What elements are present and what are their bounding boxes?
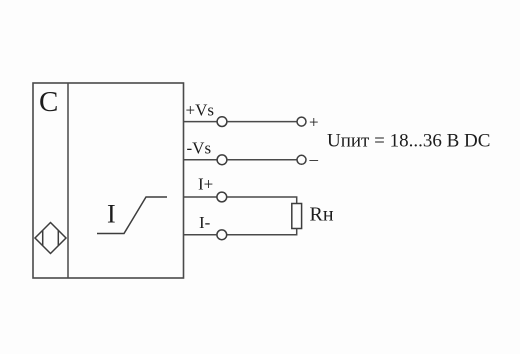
current output characteristic curve <box>97 197 167 234</box>
svg-text:Uпит = 18...36 В DC: Uпит = 18...36 В DC <box>327 131 490 152</box>
svg-text:I-: I- <box>199 213 211 232</box>
svg-text:+Vs: +Vs <box>186 101 214 120</box>
wire I- from body <box>184 234 217 236</box>
wire -Vs to minus node <box>227 159 297 161</box>
wire I+ to load <box>227 197 297 204</box>
node plus connector <box>297 117 306 126</box>
wire -Vs from body <box>184 159 217 161</box>
svg-text:-Vs: -Vs <box>187 139 212 158</box>
svg-text:–: – <box>309 150 319 169</box>
wire I+ from body <box>184 196 217 198</box>
sensor internal divider <box>67 83 69 278</box>
svg-text:+: + <box>309 112 319 131</box>
svg-text:Rн: Rн <box>310 204 334 226</box>
svg-text:I: I <box>107 200 116 229</box>
node minus connector <box>297 155 306 164</box>
wire +Vs from body <box>184 121 217 123</box>
terminal +Vs <box>217 117 227 127</box>
svg-text:C: C <box>39 86 58 118</box>
terminal -Vs <box>217 155 227 165</box>
terminal I+ <box>217 192 227 202</box>
resistor Rн load <box>292 204 302 229</box>
sensor body outline U1 <box>33 83 184 278</box>
wire load to I- <box>227 229 297 235</box>
terminal I- <box>217 230 227 240</box>
proximity sensor symbol (diamond) <box>35 223 66 254</box>
wire +Vs to plus node <box>227 121 297 123</box>
svg-text:I+: I+ <box>198 175 213 194</box>
